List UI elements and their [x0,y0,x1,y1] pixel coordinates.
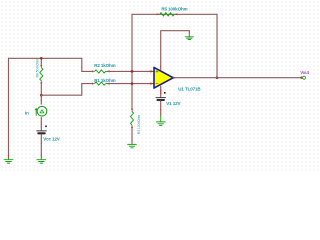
wire R3 to ground [131,128,133,141]
wire op-amp output [173,77,301,79]
resistor R2 1kOhm [92,63,116,73]
battery Vcc 12V [37,126,60,142]
wire feedback right vertical [216,14,218,77]
wire feedback top horizontal [132,13,217,15]
wire Vcc to ground [40,134,42,155]
wire to In source [40,95,42,100]
wire corner down to R2 [82,58,92,71]
wire feedback left vertical [131,14,133,108]
battery V1 12V [156,92,180,106]
node junction feedback/R1 net [131,82,134,85]
resistor R6 50mOhm [35,58,42,83]
wire stub to ground [188,31,190,33]
wire op-amp top power pin [161,31,190,67]
wire R6 top lead [40,58,42,65]
wire In to Vcc battery [40,122,42,131]
current source In [25,106,47,116]
wire R2 to op-amp non-inverting input [107,70,155,72]
svg-text:Vout: Vout [300,70,309,75]
resistor R1 1kOhm [92,78,116,85]
svg-text:V1 12V: V1 12V [166,101,180,106]
node label Vout [300,70,309,79]
op-amp U1 TL071B [149,67,202,91]
wire corner up to R1 [82,84,92,96]
svg-text:R6 50mOhm: R6 50mOhm [35,58,39,77]
node junction feedback/output [216,76,219,79]
ground [37,158,46,163]
svg-text:Vcc 12V: Vcc 12V [43,136,60,141]
resistor R5 100kOhm [157,6,188,16]
wire top-left horizontal net In+ [9,57,82,59]
wire op-amp bottom power pin [160,86,162,97]
wire R1 to op-amp inverting input [107,83,155,85]
svg-text:R5 100kOhm: R5 100kOhm [161,6,187,11]
ground [128,143,137,148]
svg-text:In: In [25,110,29,115]
resistor R3 100kOhm [131,109,141,134]
node Vout wire end [300,77,302,79]
ground [4,158,13,163]
node junction top of R6 [40,57,43,60]
wire R6 bottom lead [40,83,42,95]
wire bottom horizontal net In- [41,94,82,96]
wire left vertical to ground [8,58,10,155]
wire V1 to ground [160,101,162,109]
svg-text:R1 1kOhm: R1 1kOhm [94,78,115,83]
ground [156,115,165,125]
node junction bottom of R6 [40,94,43,97]
svg-text:R2 1kOhm: R2 1kOhm [94,63,115,68]
node junction feedback/R2 net [131,70,134,73]
svg-text:R3 100kOhm: R3 100kOhm [137,115,141,135]
svg-text:U1 TL071B: U1 TL071B [178,86,201,91]
ground [185,33,193,39]
